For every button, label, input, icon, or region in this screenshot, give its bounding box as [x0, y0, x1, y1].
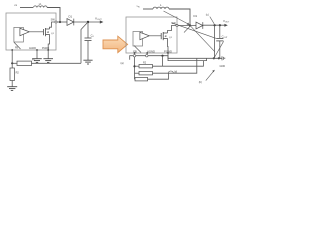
error amp box	[14, 27, 24, 42]
wire R3 to R1 line	[148, 73, 169, 79]
ground R2	[7, 87, 17, 91]
wire R3 left	[134, 78, 137, 80]
wire to GND symbol	[219, 57, 222, 59]
node R2 bus junction	[161, 55, 163, 57]
node PGND pin	[47, 49, 49, 51]
via FB bus	[133, 55, 135, 57]
svg-text:(d): (d)	[174, 70, 177, 74]
resistor R2	[10, 68, 14, 81]
wire AGND	[36, 50, 38, 59]
annotation arrowhead A	[187, 23, 190, 26]
ground bus AGND	[130, 56, 207, 61]
svg-text:AGND: AGND	[147, 49, 155, 53]
wire SW to diode	[57, 21, 67, 23]
wire L to SW right	[169, 9, 190, 26]
wire op-amp to gate right	[149, 35, 161, 37]
node AGND pin	[36, 49, 38, 51]
annotation diagonal C2	[184, 26, 190, 32]
wire source to PGND right	[167, 38, 170, 53]
annotation diagonal A	[164, 11, 190, 25]
ground PGND	[43, 59, 53, 63]
node SW junction	[59, 21, 61, 23]
annotation diagonal C	[191, 26, 215, 52]
node FB junction right	[133, 65, 135, 67]
label d arc	[168, 71, 173, 73]
svg-text:AGND: AGND	[29, 47, 36, 50]
node cap tap right	[219, 24, 221, 26]
resistor R1 right	[139, 72, 153, 75]
wire diode to Vout right	[203, 24, 225, 26]
op-amp U2A	[140, 32, 149, 39]
node AGND pin right	[146, 52, 148, 54]
svg-text:(c): (c)	[206, 13, 209, 17]
Vout arrow head right	[224, 24, 227, 27]
annotation diagonal B	[172, 23, 216, 39]
wire cap to GND diagonal	[214, 41, 223, 57]
wire b pointer	[206, 70, 214, 80]
node Vout junction	[87, 21, 89, 23]
IC box U1	[6, 13, 56, 50]
wire PGND	[47, 50, 49, 59]
diode D1 right	[196, 22, 203, 29]
ground trace PGND	[168, 53, 222, 58]
svg-text:(a): (a)	[121, 61, 124, 65]
wire cap to ground	[87, 41, 89, 61]
wire SW to diode right	[178, 25, 196, 27]
wire AGND stub	[146, 53, 148, 55]
node SW junction right	[189, 24, 191, 26]
node FB pin	[11, 49, 13, 51]
wire diode to Vout	[74, 21, 100, 23]
resistor R3	[135, 78, 148, 81]
svg-text:FB: FB	[15, 47, 18, 50]
wire cap to gnd node	[219, 41, 221, 58]
wire FB node to R2	[11, 63, 13, 68]
wire FB to R1 right	[135, 72, 140, 74]
wire VIN top right	[143, 8, 153, 10]
wire FB to R2 right	[135, 65, 140, 67]
IC box U2	[126, 17, 177, 53]
wire c pointer	[210, 17, 214, 24]
resistor R2 right	[139, 65, 153, 68]
diode D1	[67, 19, 74, 26]
wire cap branch	[87, 23, 89, 38]
node gnd junction 2	[218, 57, 220, 59]
svg-text:D1: D1	[194, 14, 198, 18]
wire op-amp to gate	[29, 31, 43, 33]
inductor L1	[34, 6, 48, 8]
node Vout tap right	[214, 24, 216, 26]
capacitor Co	[85, 38, 92, 41]
capacitor Cout	[216, 38, 223, 41]
ground output	[83, 60, 92, 64]
wire feedback diagonal	[81, 22, 88, 63]
resistor R1	[17, 61, 32, 65]
op-amp U1A	[20, 28, 29, 35]
wire FB pin down right	[134, 53, 136, 79]
block arrow	[103, 36, 128, 52]
ground AGND	[32, 59, 42, 63]
inductor L right	[153, 7, 169, 9]
pin SW	[55, 21, 57, 23]
wire fb internal diagonal	[14, 42, 21, 49]
wire source to PGND	[48, 34, 49, 50]
wire R1 sense line	[153, 59, 197, 74]
wire fb internal diagonal right	[134, 46, 141, 53]
svg-text:D1: D1	[69, 15, 73, 19]
wire VIN top	[20, 7, 33, 9]
error amp box right	[133, 32, 143, 47]
svg-text:GND: GND	[220, 65, 226, 68]
transistor Q1 right	[161, 32, 167, 40]
wire feedback bottom	[32, 62, 82, 64]
ground GND right	[222, 56, 225, 60]
Vout arrow head	[100, 20, 104, 23]
wire drain to SW pin	[50, 22, 55, 29]
node FB pin right	[134, 52, 136, 54]
node FB junction	[11, 62, 13, 64]
svg-text:(b): (b)	[199, 80, 202, 84]
via AGND bus	[146, 55, 148, 57]
arrowhead b pointer	[212, 70, 215, 73]
wire cap branch right	[219, 25, 221, 38]
wire drain to SW pin right	[168, 26, 176, 34]
node gnd junction 1	[213, 57, 215, 59]
transistor Q1	[44, 28, 50, 36]
svg-text:SW: SW	[51, 18, 56, 22]
node PGND pin right	[167, 52, 169, 54]
pin SW right	[176, 24, 178, 26]
wire R2 to bus	[153, 56, 204, 66]
wire L to SW node	[47, 8, 60, 23]
wire FB pin	[11, 50, 13, 63]
wire Vout sense vertical	[213, 25, 215, 58]
wire R2 to ground	[11, 81, 13, 87]
wire R1 to FB node	[12, 62, 17, 64]
